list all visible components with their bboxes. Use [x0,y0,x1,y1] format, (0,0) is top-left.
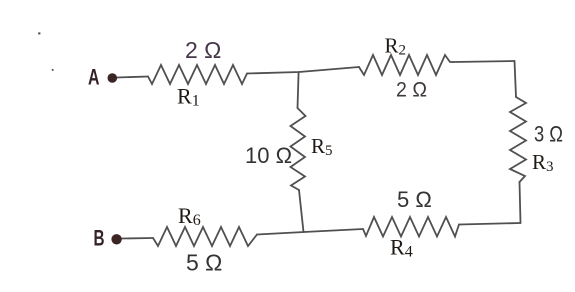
svg-text:2 Ω: 2 Ω [396,79,427,102]
svg-text:B: B [94,226,105,251]
svg-text:5 Ω: 5 Ω [186,250,222,276]
svg-text:2 Ω: 2 Ω [185,37,221,63]
svg-text:A: A [88,65,100,90]
svg-text:5 Ω: 5 Ω [397,187,432,212]
svg-text:10 Ω: 10 Ω [245,143,292,168]
svg-text:3 Ω: 3 Ω [534,122,563,147]
